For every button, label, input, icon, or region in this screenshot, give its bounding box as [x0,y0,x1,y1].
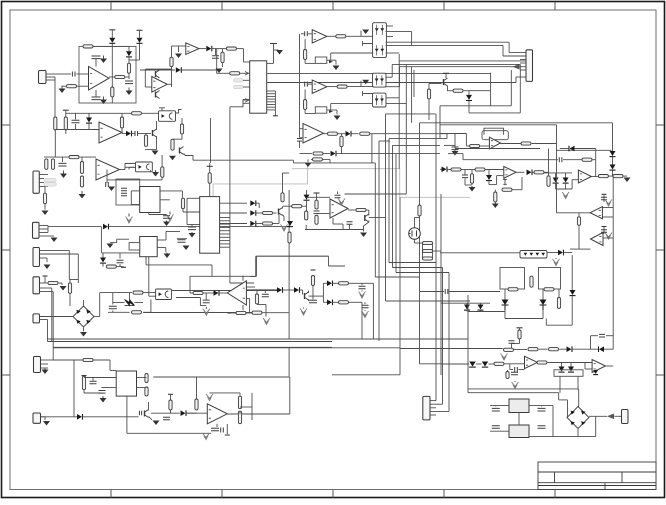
resistor R12 [171,139,174,150]
wire [347,86,373,88]
wire [146,264,212,266]
ground [281,225,288,232]
wire [312,296,314,299]
wire [267,95,276,97]
ground [360,233,367,238]
resistor R14 [51,159,54,170]
resistor R82 [423,241,433,244]
wire [480,310,482,312]
resistor R89 [313,158,323,161]
ground [103,56,105,59]
wire [41,416,46,418]
capacitor C41 [538,426,546,429]
wire [468,392,559,394]
resistor R73 [82,376,85,390]
resistor R52 [582,158,592,161]
wire [395,154,397,273]
resistor R15 [69,156,79,159]
wire [220,226,230,228]
wire [465,184,472,186]
wire [449,291,500,293]
wire [415,242,423,244]
wire [101,387,116,389]
wire [267,106,276,108]
wire [289,377,291,414]
wire [149,417,153,420]
wire [440,124,557,126]
wire [369,217,386,219]
ground [169,212,171,215]
wire [604,348,613,350]
wire [273,212,277,214]
diode D1 [109,38,115,43]
wire [327,59,336,61]
resistor R10 [144,135,147,147]
wire [305,113,315,115]
wire [444,144,455,146]
wire [589,415,607,417]
ground [205,307,207,309]
diode D16 [277,287,282,293]
resistor R77 [195,399,198,410]
wire [140,69,175,71]
wire [200,305,206,307]
wire [58,282,62,284]
optocoupler U23 [520,251,547,259]
wire [419,216,421,277]
op-amp U30 [227,281,246,305]
wire [329,265,346,267]
connector J4 [526,50,533,82]
wire [106,180,108,183]
pin arrows U9 [245,72,249,103]
wire [39,182,44,184]
net gray [213,163,308,197]
op-amp U29 [303,124,324,144]
op-amp U25 [592,360,605,373]
wire [448,153,463,155]
title block row line 2 [538,482,656,484]
wire [592,159,596,161]
wire [305,229,364,231]
wire bus [374,163,376,277]
border tick bottom 3 [332,490,334,498]
ground [362,80,369,85]
wire [156,121,158,130]
border tick right 1 [656,124,664,126]
diode D34 [559,367,565,372]
ground [153,421,160,426]
power tap [311,269,316,271]
wire [400,66,515,68]
border tick left 2 [2,249,10,251]
border tick bottom 1 [110,490,112,498]
wire [561,363,563,367]
wire [191,225,193,227]
capacitor C9 [121,188,127,191]
wire [220,240,230,242]
ground [624,178,631,183]
transistor Q11 [144,411,146,417]
wire [332,374,400,376]
wire [490,73,492,91]
wire [144,69,146,87]
wire long input [299,34,301,138]
wire [485,169,504,171]
wire [510,70,512,106]
ground [333,66,340,71]
wire [203,292,214,294]
wire [112,311,114,313]
capacitor C1 [72,72,75,77]
wire [422,243,424,259]
capacitor C36 [221,428,224,433]
wire row A [400,348,503,350]
resistor R41 [48,281,58,284]
wire [441,363,469,365]
wire [40,316,74,318]
diode D2 [126,51,132,56]
resistor R58 [475,168,485,171]
wire [420,291,444,293]
wire [419,216,421,218]
resistor R3 [115,75,125,78]
wire [504,289,506,299]
MOSFET Q12 [409,228,421,240]
wire [246,298,249,300]
resistor R53 [547,176,550,187]
diode D14 [304,195,310,200]
wire [246,289,277,291]
wire [304,60,306,64]
wire [371,134,373,163]
diode D36 [77,414,82,420]
power tap [109,29,115,31]
capacitor C23 [452,147,459,150]
wire [131,204,139,206]
wire long [267,73,491,75]
connector J6 [33,277,40,294]
wire [107,179,125,181]
resistor R9 [132,112,142,115]
resistor R47 [339,301,349,304]
wire [612,123,614,151]
op-amp U18 [489,137,500,149]
diode D21 [610,165,616,170]
wire [217,72,230,74]
wire [39,186,48,188]
ground [454,150,456,151]
wire [239,411,241,414]
diode D22 [570,146,575,152]
power tap [517,327,523,329]
wire [502,45,504,56]
wire [54,130,56,157]
wire [69,279,78,281]
wire [399,348,401,375]
capacitor C13 [178,240,186,243]
resistor R61 [534,171,544,174]
wire [300,137,304,139]
wire [559,399,568,401]
wire [389,138,440,140]
terminal [207,165,213,167]
wire [393,144,441,146]
op-amp U8 [186,43,199,55]
wire [129,59,140,61]
wire [128,167,130,169]
wire pin bus [229,218,231,248]
wire [364,302,366,304]
wire [435,114,437,401]
wire [246,312,252,314]
wire [46,258,48,262]
wire [308,291,310,294]
pot wiper [329,60,333,63]
resistor R13 [45,159,48,170]
op-amp U7 [152,77,167,93]
wire [242,103,244,107]
terminal [273,115,278,117]
wire [256,290,258,294]
capacitor C30 [515,367,518,372]
capacitor C16 [305,31,308,36]
op-amp U22 [591,233,604,246]
wire [512,189,522,191]
pin stub [363,41,373,46]
wire [109,76,115,78]
wire [612,157,614,165]
wire [440,105,511,107]
wire [386,36,393,38]
wire [237,48,244,50]
wire [324,133,328,135]
wire [182,198,184,199]
wire [189,276,191,293]
title block row line 1 [538,471,656,473]
wire [274,49,279,51]
wire [430,407,436,409]
resistor R56 [451,168,461,171]
wire [95,59,97,67]
wire [349,282,356,284]
wire [304,110,306,114]
capacitor C11 [163,216,170,219]
resistor R72 [537,361,547,364]
wire [603,195,605,202]
diode D29 [570,290,576,295]
border tick bottom 5 [554,490,556,498]
wire [216,49,218,70]
capacitor C2 [92,56,101,59]
wire long [53,346,332,348]
wire rail long [48,338,469,340]
resistor R21 [170,57,173,66]
wire [83,300,85,306]
wire [433,242,435,244]
wire [106,170,108,181]
wire [317,213,331,215]
wire [420,363,442,365]
wire [145,134,147,136]
wire [230,282,254,284]
transistor Q13 [364,215,366,221]
terminal [228,312,232,314]
wire [519,339,521,344]
capacitor C46 [445,289,448,294]
title block divider v3 [604,483,606,490]
wire [577,429,579,437]
capacitor C21 [309,300,317,303]
ground [494,203,496,204]
wire [148,402,150,411]
wire [239,393,241,396]
wire [603,227,605,234]
power tap [137,29,143,31]
resistor R17 [80,176,83,187]
connector J3 [33,222,40,238]
resistor R6 [54,117,57,130]
wire [539,348,548,350]
capacitor C7 [59,163,67,166]
capacitor C19 [117,260,124,263]
wire [77,254,79,283]
border tick top 1 [110,2,112,10]
wire [558,393,560,400]
wire [110,370,116,372]
wire [157,239,166,241]
wire [415,217,420,219]
wire [448,86,453,91]
wire [39,174,48,176]
net label [234,85,243,88]
wire [469,112,520,114]
ground [555,258,557,259]
wire [119,253,121,259]
op-amp U12 [312,80,327,93]
wire [243,99,250,101]
wire [125,179,162,181]
power tap [270,43,277,45]
resistor R32 [263,222,273,225]
wire [556,125,558,144]
wire [349,224,351,229]
wire [414,218,416,228]
wire [187,197,200,199]
wire [555,173,557,178]
wire [388,139,390,263]
transistor Q5 [443,79,445,85]
wire [366,209,369,211]
wire [196,377,198,399]
wire [571,296,573,325]
border tick right 3 [656,374,664,376]
resistor R2 [67,85,77,88]
transistor Q1 [152,130,154,136]
wire [361,302,363,339]
wire [220,236,230,238]
ground [605,233,612,240]
wire [512,343,520,345]
wire [243,99,250,101]
wire [323,301,327,303]
wire [464,179,466,186]
resistor R74 [145,387,148,396]
wire [102,263,104,267]
wire [181,134,183,139]
title block row line 3 [538,485,656,487]
wire [399,347,401,350]
wire [591,176,598,178]
wire [148,213,150,215]
wire J1 drop [54,77,56,117]
capacitor C35 [211,428,219,431]
border tick top 3 [332,2,334,10]
wire rail long [53,347,400,349]
wire [447,133,466,135]
ground [44,369,46,370]
resistor R39 [311,276,314,286]
wire [282,206,284,208]
wire [606,335,613,337]
wire [440,194,442,375]
wire [111,44,113,87]
wire [62,157,64,162]
signal arrow [513,64,520,70]
resistor R35 [288,232,291,243]
wire [41,363,49,365]
wire [386,41,510,43]
border tick top 5 [554,2,556,10]
wire [323,158,331,160]
wire [125,162,136,164]
wire [226,424,228,434]
wire [95,90,97,97]
net label [44,178,56,182]
wire [430,400,436,402]
wire [575,148,596,150]
wire long [48,341,333,343]
diode D24 [563,178,569,183]
wire vertical [210,118,212,163]
capacitor C3 [92,97,101,100]
wire [497,175,503,177]
ground [305,163,312,168]
wire [559,348,566,350]
wire [243,79,250,81]
ground [206,394,213,401]
wire [216,424,218,427]
wire [563,159,582,161]
wire [432,243,434,259]
resistor R87 [340,136,343,147]
wire [94,316,100,318]
wire [300,128,304,130]
wire [242,100,244,104]
wire [471,170,473,174]
wire [222,49,224,53]
wire [364,221,369,227]
wire [187,224,200,226]
wire [46,76,55,78]
wire [255,256,257,276]
capacitor C29 [599,334,605,337]
diode D26 [486,175,492,180]
wire [292,160,294,163]
wire [113,302,125,304]
wire [186,198,188,224]
wire [256,256,258,276]
